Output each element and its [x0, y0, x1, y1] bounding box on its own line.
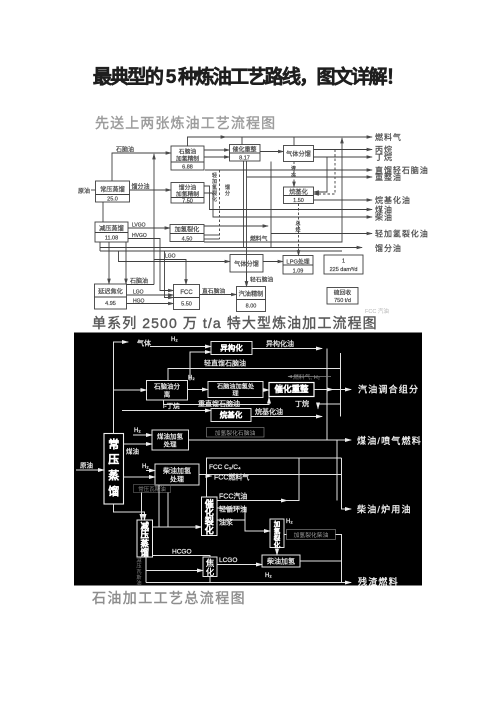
wire 常压瓦斯油 to 减压蒸馏 — [141, 493, 143, 521]
svg-text:石脑油加氢处: 石脑油加氢处 — [217, 383, 254, 391]
wire 馏分油 — [130, 189, 172, 191]
svg-text:H₂: H₂ — [171, 337, 178, 343]
svg-text:11.08: 11.08 — [105, 236, 118, 242]
svg-text:化: 化 — [206, 567, 215, 577]
wire 烷基化油 — [314, 199, 373, 201]
wire 丁烷 — [314, 156, 373, 158]
box 气体分馏 (mid) — [230, 255, 263, 273]
wire 减压渣油 to 焦化 — [145, 557, 147, 583]
svg-text:1: 1 — [342, 259, 345, 265]
wire 轻石脑油 to 异构化 — [190, 352, 211, 381]
wire 燃料气 H2 dim — [288, 376, 331, 378]
wire H2 to 异构化 — [150, 346, 211, 348]
wire HCGO — [153, 556, 211, 558]
svg-text:裂: 裂 — [274, 533, 281, 542]
svg-text:常压蒸馏: 常压蒸馏 — [100, 186, 125, 194]
svg-text:加: 加 — [273, 519, 281, 528]
box 馏分油加氢精制 7.50 — [171, 183, 204, 204]
wire 丁烷 — [318, 404, 341, 409]
wire gasoline bus B — [340, 353, 342, 417]
wire 轻直馏石脑油 — [168, 369, 341, 381]
svg-text:煤油加氢: 煤油加氢 — [157, 432, 184, 441]
svg-text:石脑油: 石脑油 — [130, 277, 148, 285]
wire FCC C3/C4 — [207, 458, 342, 497]
svg-text:总: 总 — [295, 220, 300, 227]
wire 残渣燃料 — [146, 582, 351, 584]
wire 石脑油 merge riser — [153, 154, 155, 285]
wire 常压渣油 to 减压蒸馏 — [114, 504, 145, 520]
box 柴油加氢 — [262, 555, 300, 567]
svg-text:LCGO: LCGO — [219, 557, 237, 564]
wire 柴油加氢处理 bottom riser — [158, 485, 160, 527]
svg-text:汽油精制: 汽油精制 — [239, 290, 264, 298]
svg-text:重整油: 重整油 — [375, 172, 402, 182]
svg-text:压: 压 — [108, 452, 119, 466]
box 加氢裂化 4.50 — [170, 225, 204, 242]
wire 减压渣油 to 焦化 — [108, 242, 110, 284]
caption 3 — [92, 588, 246, 608]
svg-text:硫回收: 硫回收 — [334, 289, 352, 297]
svg-text:LGO: LGO — [165, 254, 176, 260]
wire 气体 offgas — [114, 342, 129, 434]
wire 煤油/喷气燃料 — [189, 439, 352, 441]
wire dashed riser x219 — [219, 170, 221, 239]
wire 加氢裂化 to dim box — [284, 534, 287, 536]
svg-text:馏: 馏 — [225, 184, 230, 191]
wire 柴油 feed — [124, 476, 156, 478]
wire 柴油加氢处理 out — [199, 474, 342, 476]
svg-text:直石脑油: 直石脑油 — [202, 287, 225, 295]
wire VGO riser 2 — [165, 251, 174, 298]
box 硫回收 750 t/d — [327, 288, 358, 305]
wire 轻石脑油 riser — [246, 272, 248, 287]
svg-text:HVGO: HVGO — [132, 233, 147, 239]
svg-text:汽油调合组分: 汽油调合组分 — [358, 384, 419, 395]
svg-text:6.88: 6.88 — [182, 165, 193, 171]
svg-text:柴油: 柴油 — [375, 212, 393, 222]
svg-text:燃料气: 燃料气 — [250, 235, 268, 243]
label 氢气 vertical — [212, 165, 301, 234]
svg-text:柴油加氢: 柴油加氢 — [163, 466, 191, 475]
svg-text:H₂: H₂ — [188, 376, 195, 382]
wire 煤油 — [204, 186, 372, 210]
svg-text:8.17: 8.17 — [239, 156, 250, 162]
svg-text:HGO: HGO — [133, 299, 145, 305]
wire 油浆 — [218, 519, 246, 521]
wire 馏分油 output — [100, 247, 362, 249]
wire 丙烷 — [314, 149, 373, 151]
wire 轻循环油 to 加氢裂化 — [218, 508, 271, 531]
svg-text:馏分油: 馏分油 — [179, 184, 197, 192]
svg-text:丁烷: 丁烷 — [295, 399, 309, 408]
svg-text:4.50: 4.50 — [182, 237, 193, 243]
box 催化裂化 (vertical bold) — [202, 497, 218, 536]
box 石脑油加氢精制 6.88 — [171, 146, 204, 170]
svg-text:轻: 轻 — [212, 172, 217, 179]
svg-text:燃料气, H₂: 燃料气, H₂ — [293, 373, 320, 381]
wire 重整 to 气体分馏 — [260, 151, 284, 153]
wire HVGO — [128, 239, 174, 291]
box LPG处理 1.09 — [283, 256, 313, 275]
wire 直馏轻石脑油 — [205, 169, 372, 171]
svg-text:H₂: H₂ — [134, 428, 141, 434]
svg-text:柴油/炉用油: 柴油/炉用油 — [357, 504, 412, 515]
svg-text:石脑油: 石脑油 — [179, 148, 197, 156]
svg-text:油浆: 油浆 — [219, 518, 233, 527]
wire 瓦斯油 riser — [167, 493, 169, 528]
box 催化重整 8.17 — [230, 145, 261, 162]
wire LCGO — [217, 564, 262, 566]
svg-text:态: 态 — [291, 172, 296, 179]
wire 焦化 bottom — [209, 577, 211, 583]
wire 常压塔底渣油 — [102, 202, 104, 222]
svg-text:轻石脑油: 轻石脑油 — [250, 276, 273, 284]
svg-text:裂: 裂 — [212, 190, 217, 197]
black diagram background — [74, 333, 422, 586]
wire FCC燃料气 — [207, 475, 212, 477]
wire 煤油 feed — [124, 443, 153, 445]
svg-text:25.0: 25.0 — [107, 197, 118, 203]
svg-text:LVGO: LVGO — [132, 223, 146, 229]
wire 气分 to 烷基化 dashed — [293, 162, 295, 188]
svg-text:异构化油: 异构化油 — [266, 339, 294, 348]
wire 轻加氢裂化油 — [204, 225, 268, 227]
box 减压蒸馏 (vertical) — [137, 520, 153, 557]
wire 柴油加氢 out — [300, 560, 342, 562]
svg-text:柴油加氢: 柴油加氢 — [267, 557, 295, 566]
box 烷基化 — [211, 409, 251, 422]
box 常压蒸馏 25.0 — [96, 181, 130, 202]
svg-text:FCC C₃/C₄: FCC C₃/C₄ — [209, 464, 241, 471]
svg-text:轻循环油: 轻循环油 — [219, 505, 247, 514]
svg-text:常: 常 — [108, 437, 119, 451]
wire bus C — [336, 440, 338, 501]
box FCC 5.50 — [174, 285, 200, 310]
svg-text:氢: 氢 — [212, 184, 217, 191]
wire 石脑油 to 加氢精制 — [112, 153, 171, 181]
svg-text:液: 液 — [291, 165, 296, 172]
svg-text:原油: 原油 — [78, 187, 90, 195]
wire 燃料气 mid riser — [204, 138, 342, 242]
wire diesel bus D — [342, 458, 352, 509]
svg-text:LGO: LGO — [133, 290, 144, 296]
svg-text:气体分馏: 气体分馏 — [286, 150, 311, 158]
svg-text:H₂: H₂ — [265, 573, 272, 579]
svg-text:750 t/d: 750 t/d — [334, 298, 351, 304]
svg-text:烷基化: 烷基化 — [220, 410, 243, 420]
wire 重整油 — [247, 176, 373, 178]
svg-text:丁烷: 丁烷 — [375, 152, 393, 162]
wire 石脑油 from 焦化 — [127, 284, 155, 286]
svg-text:加: 加 — [212, 178, 217, 185]
svg-text:FCC燃料气: FCC燃料气 — [214, 473, 249, 482]
svg-text:H₂: H₂ — [142, 464, 149, 470]
svg-text:离: 离 — [164, 390, 171, 399]
svg-text:LPG处理: LPG处理 — [286, 258, 309, 266]
svg-text:烷基化: 烷基化 — [289, 188, 308, 196]
svg-text:4.95: 4.95 — [105, 301, 116, 307]
svg-text:1.09: 1.09 — [293, 269, 304, 275]
wire 烷基化油 out — [251, 416, 322, 418]
box 减压蒸馏 11.08 — [95, 222, 128, 242]
box 加氢裂化柴油 (dim) — [287, 530, 336, 540]
svg-text:H₂: H₂ — [286, 519, 293, 525]
wire 直石脑油 to 汽油精制 — [200, 294, 237, 296]
wire 重直馏石脑油 — [164, 398, 270, 405]
wire 汽油调合组分 — [314, 389, 351, 391]
svg-text:石脑油: 石脑油 — [116, 146, 134, 154]
svg-text:FCC汽油: FCC汽油 — [219, 492, 247, 501]
svg-text:分: 分 — [225, 190, 230, 197]
svg-text:油: 油 — [136, 578, 141, 586]
svg-text:异构化: 异构化 — [220, 343, 243, 353]
wire LPG处理 feed dashed — [298, 204, 300, 256]
wire 渣油 riser 2 — [125, 242, 127, 284]
svg-text:煤油/喷气燃料: 煤油/喷气燃料 — [357, 435, 422, 446]
caption 1 — [95, 113, 276, 133]
caption 2 — [92, 313, 378, 333]
box 柴油加氢处理 — [155, 464, 199, 485]
svg-text:7.50: 7.50 — [182, 199, 193, 205]
svg-text:石脑油分: 石脑油分 — [154, 382, 181, 391]
svg-text:原油: 原油 — [80, 461, 93, 470]
svg-text:烷基化油: 烷基化油 — [255, 407, 283, 416]
svg-text:FCC: FCC — [180, 290, 193, 296]
svg-text:1.50: 1.50 — [293, 198, 304, 204]
svg-text:蒸: 蒸 — [108, 468, 119, 482]
svg-text:减压蒸馏: 减压蒸馏 — [99, 225, 124, 233]
svg-text:馏分油: 馏分油 — [132, 183, 150, 191]
svg-text:FCC 汽油: FCC 汽油 — [365, 307, 389, 315]
svg-text:加氢裂化柴油: 加氢裂化柴油 — [294, 531, 329, 539]
wire 加氢裂化 to 柴油加氢 — [276, 548, 278, 556]
svg-text:5.50: 5.50 — [181, 302, 192, 308]
svg-text:催化重整: 催化重整 — [232, 146, 256, 154]
svg-text:225 dam³/d: 225 dam³/d — [330, 267, 358, 273]
wire 气分 to LPG — [263, 261, 283, 263]
box 异构化 — [211, 342, 252, 355]
svg-text:处理: 处理 — [164, 440, 178, 449]
wire 石脑油 to 石脑油分离 — [114, 389, 147, 391]
svg-text:催化重整: 催化重整 — [274, 384, 309, 394]
wire FCC汽油 — [218, 500, 288, 502]
wire to 气体分馏 mid — [119, 251, 231, 262]
box 烷基化 1.50 — [284, 187, 314, 204]
box 延迟焦化 4.95 — [95, 284, 127, 309]
wire 催化裂化 feed — [153, 526, 202, 528]
svg-text:烷基化油: 烷基化油 — [375, 195, 411, 205]
svg-text:化: 化 — [212, 196, 217, 203]
svg-text:气体: 气体 — [137, 339, 151, 348]
box ∑ 225 dam³/d — [324, 255, 363, 274]
box 气体分馏 (top) — [284, 146, 314, 162]
box 常压蒸馏 (vertical) — [104, 434, 124, 505]
wire 原油 input — [91, 189, 96, 191]
wire HGO from 焦化 — [127, 303, 174, 305]
wire C3 dashed to 烷基化 — [314, 150, 336, 195]
box 煤油加氢处理 — [152, 430, 189, 450]
box 加氢裂化石脑油 (dim) — [207, 428, 265, 438]
wire LVGO — [128, 227, 170, 229]
box 汽油精制 8.00 — [237, 287, 266, 312]
wire 石分 to 石脑油加氢处理 — [188, 389, 209, 391]
wire 原油 input — [76, 469, 104, 471]
svg-text:理: 理 — [232, 391, 238, 398]
svg-text:延迟焦化: 延迟焦化 — [98, 288, 123, 296]
svg-text:化: 化 — [205, 525, 214, 536]
svg-text:轻直馏石脑油: 轻直馏石脑油 — [204, 359, 246, 368]
wire 燃料气 top line — [188, 137, 373, 146]
svg-text:重直馏石脑油: 重直馏石脑油 — [198, 399, 240, 408]
svg-text:加氢精制: 加氢精制 — [176, 155, 199, 163]
wire 柴油 — [204, 193, 372, 217]
box 常压瓦斯油 (dim) — [134, 485, 171, 493]
wire gasoline bus A — [326, 349, 328, 441]
svg-text:加氢裂化石脑油: 加氢裂化石脑油 — [215, 429, 256, 437]
wire 重整液 riser pair — [243, 161, 245, 248]
svg-text:煤油: 煤油 — [126, 447, 139, 456]
svg-text:轻加氢裂化油: 轻加氢裂化油 — [375, 229, 429, 239]
box 石脑油加氢处理 — [208, 382, 263, 398]
box 石脑油分离 — [147, 381, 188, 401]
svg-text:处理: 处理 — [170, 475, 184, 484]
label 减压瓦斯油 (dim vertical) — [136, 556, 142, 586]
svg-text:馏分油: 馏分油 — [375, 243, 402, 253]
wire LGO to FCC — [154, 260, 186, 285]
svg-text:加氢精制: 加氢精制 — [176, 190, 199, 198]
svg-text:烃: 烃 — [295, 227, 300, 234]
box 催化重整 (bold) — [269, 383, 314, 397]
svg-text:残渣燃料: 残渣燃料 — [358, 576, 399, 587]
svg-text:加氢裂化: 加氢裂化 — [175, 226, 200, 234]
box 加氢裂化 (vertical) — [270, 519, 284, 548]
wire C4 to 烷基化 — [314, 157, 328, 192]
box 焦化 (vertical) — [203, 557, 217, 577]
wire 加氢处理 to 催化重整 — [263, 389, 269, 391]
wire LGO from 焦化 — [127, 294, 174, 296]
svg-text:常压瓦斯油: 常压瓦斯油 — [138, 485, 166, 493]
svg-text:馏: 馏 — [140, 548, 150, 558]
svg-text:HCGO: HCGO — [172, 549, 192, 556]
svg-text:氢: 氢 — [274, 526, 281, 535]
svg-text:馏: 馏 — [108, 484, 119, 498]
svg-text:燃料气: 燃料气 — [375, 132, 402, 142]
page title — [0, 62, 496, 89]
svg-text:8.00: 8.00 — [246, 304, 257, 310]
wire 液态烃 vertical — [270, 162, 272, 248]
wire 精制石脑油 to 重整 — [204, 149, 230, 151]
wire 异构化油 — [252, 348, 322, 350]
svg-text:i-丁烷: i-丁烷 — [163, 401, 180, 410]
wire i-丁烷 — [122, 410, 211, 412]
